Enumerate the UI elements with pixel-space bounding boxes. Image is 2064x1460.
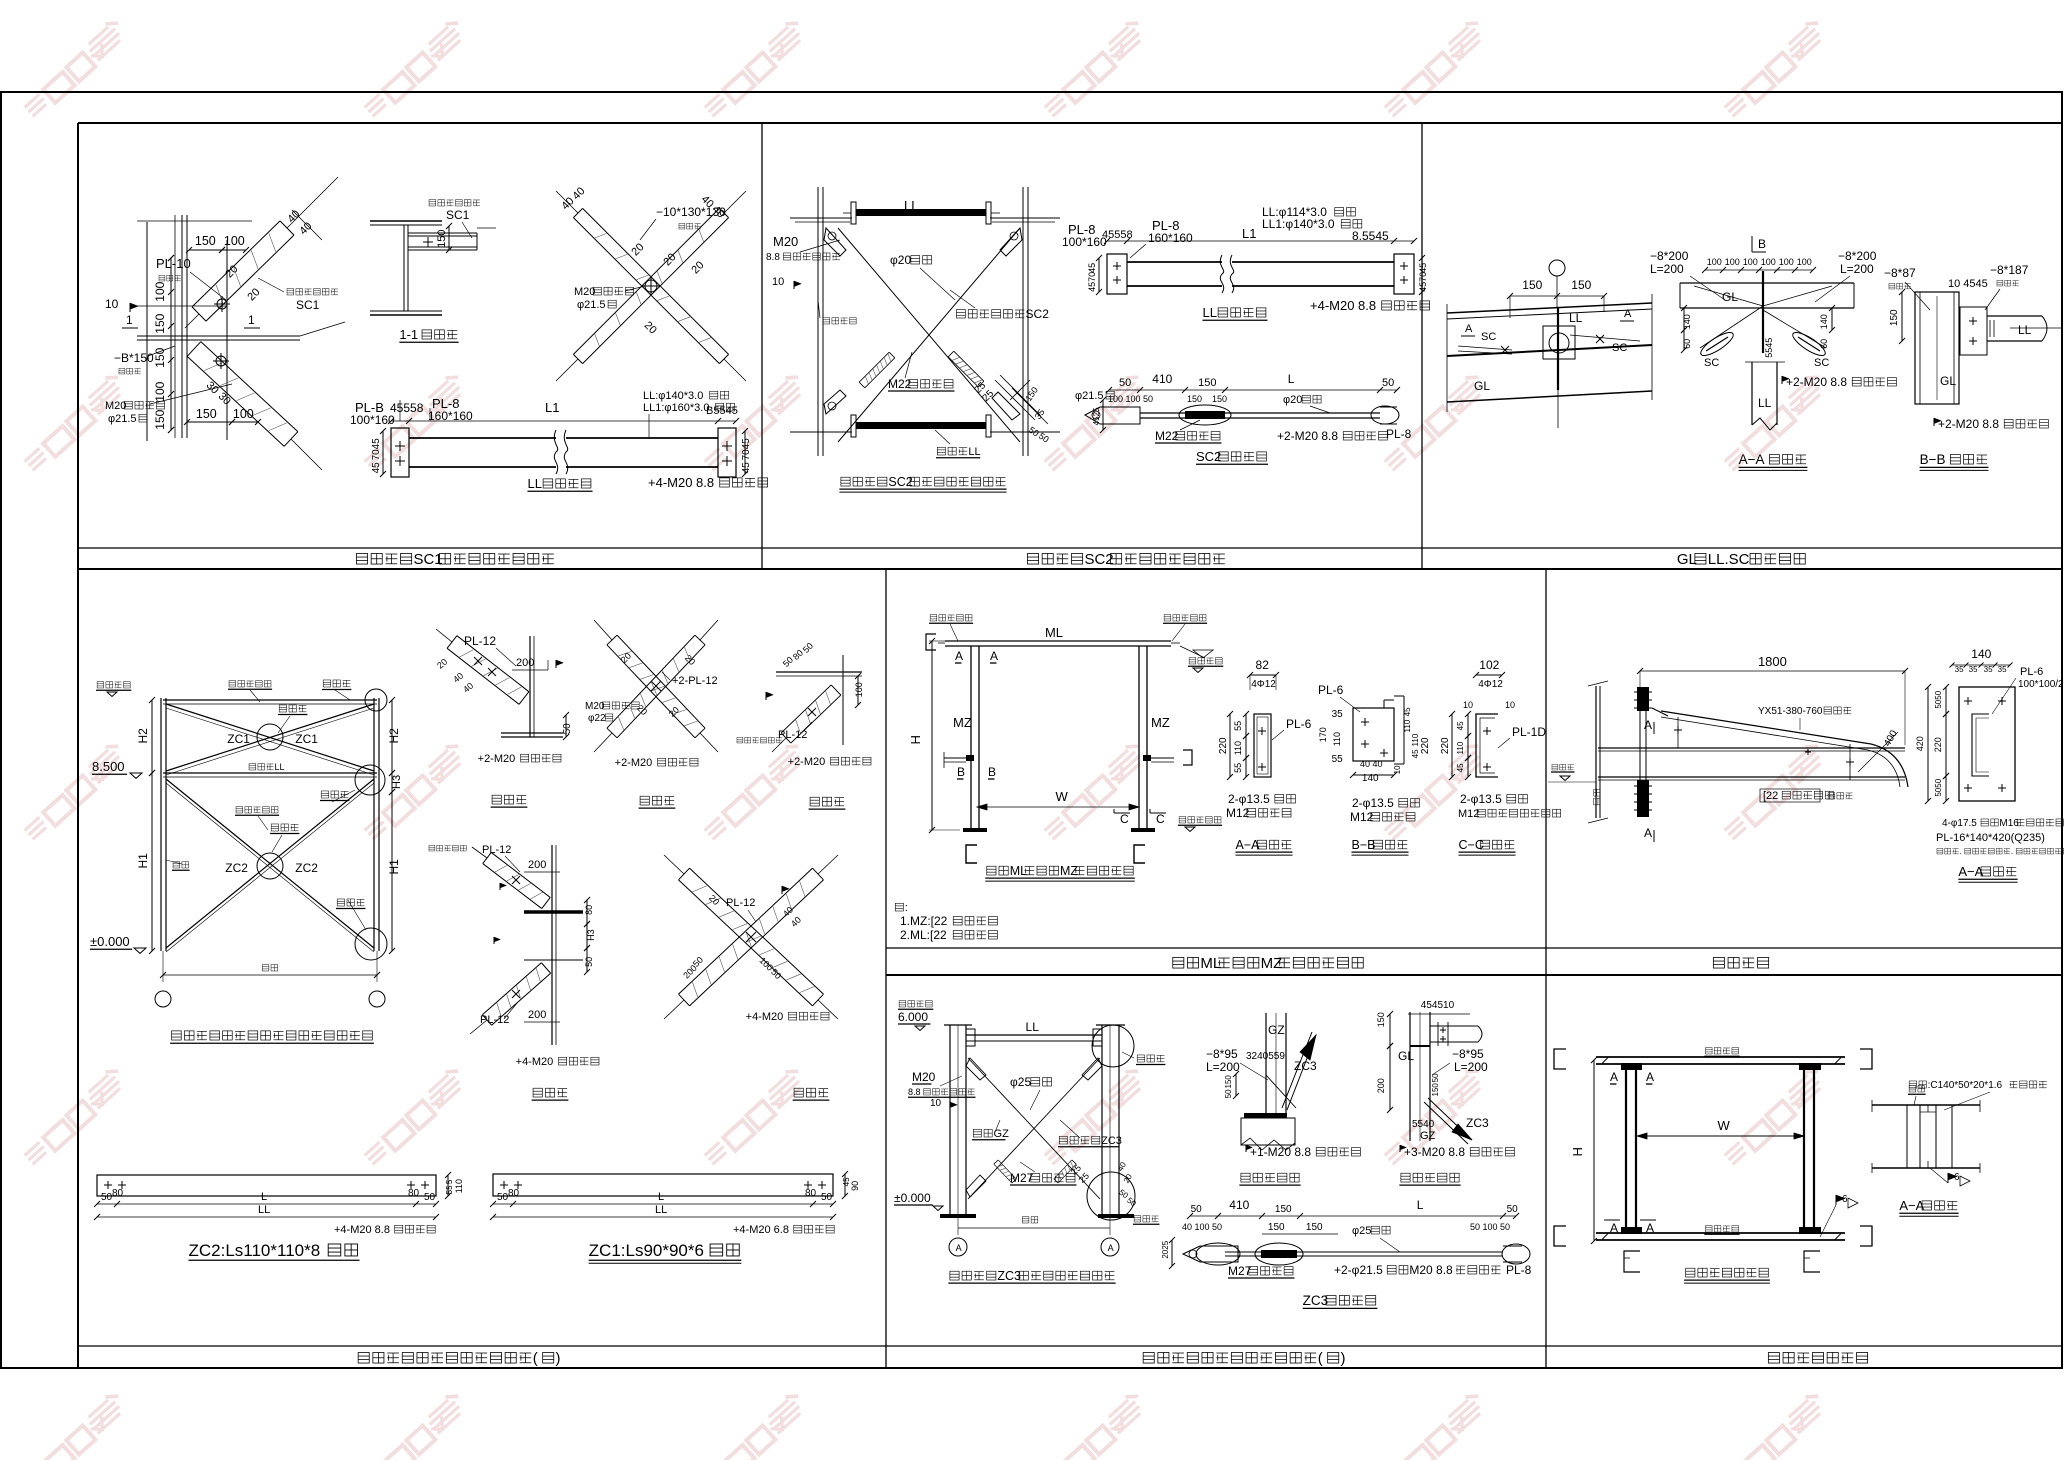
LL member side dims bbox=[382, 431, 384, 474]
ZC3 frame title bbox=[950, 1271, 959, 1280]
svg-text:+4-M20 8.8: +4-M20 8.8 bbox=[1310, 298, 1376, 313]
svg-text:+2-M20: +2-M20 bbox=[478, 753, 516, 765]
middle label bar lines bbox=[886, 947, 2062, 949]
svg-text:220: 220 bbox=[1218, 737, 1229, 754]
window AA inner channels bbox=[1906, 1105, 1908, 1168]
svg-text:100 100 50: 100 100 50 bbox=[1108, 394, 1153, 404]
SC1 connection detail column bbox=[181, 215, 183, 438]
panel title bracing 1 bbox=[358, 1352, 369, 1363]
svg-text:L=200: L=200 bbox=[1650, 262, 1684, 276]
node 1 diagonal rod bbox=[1282, 1032, 1312, 1108]
canopy wall column bbox=[1595, 686, 1597, 818]
svg-text:45558: 45558 bbox=[1102, 229, 1133, 241]
svg-text:100: 100 bbox=[1725, 257, 1740, 267]
SC2 LL member detail beam bbox=[1127, 261, 1394, 263]
ZC3 grid circles bbox=[949, 1238, 967, 1256]
detail 5 beam bbox=[776, 671, 862, 673]
GL plan upper chord line bbox=[1447, 303, 1652, 313]
ZC3 corner hooks bbox=[966, 1058, 986, 1080]
svg-text:150: 150 bbox=[153, 313, 167, 333]
svg-text:L: L bbox=[658, 1191, 664, 1203]
svg-text:100: 100 bbox=[224, 234, 245, 248]
canopy dim 1800 bbox=[1640, 670, 1905, 672]
svg-text:110: 110 bbox=[1332, 732, 1342, 746]
svg-text:200: 200 bbox=[528, 1009, 546, 1021]
svg-text:A−A: A−A bbox=[1236, 838, 1261, 852]
svg-text:(: ( bbox=[1318, 1350, 1323, 1367]
canopy sheet left tip bbox=[1652, 708, 1668, 716]
svg-text:10: 10 bbox=[1463, 700, 1473, 710]
svg-text:H1: H1 bbox=[387, 859, 401, 875]
bottom label bar line bbox=[78, 1345, 2062, 1347]
svg-text:80: 80 bbox=[408, 1188, 420, 1199]
SC2 LL member break bbox=[1222, 258, 1232, 290]
svg-text:150: 150 bbox=[1522, 278, 1542, 292]
svg-text:B−B: B−B bbox=[1920, 452, 1946, 467]
svg-text:PL-8: PL-8 bbox=[1506, 1263, 1532, 1277]
svg-text:): ) bbox=[556, 1350, 561, 1367]
detail 2 vertical plate bbox=[551, 845, 553, 1045]
ZC3 member right end bbox=[1502, 1244, 1530, 1264]
svg-text:6: 6 bbox=[1842, 1194, 1848, 1205]
detail 1 brace band bbox=[447, 648, 519, 704]
B-B channel marks top right bbox=[1384, 699, 1394, 701]
ZC3 rotated dims bottom right bbox=[1069, 1163, 1083, 1177]
svg-text:100*160: 100*160 bbox=[1062, 235, 1107, 249]
svg-text:φ25: φ25 bbox=[1352, 1225, 1371, 1237]
svg-text:L: L bbox=[1288, 372, 1295, 386]
svg-text:MZ: MZ bbox=[1151, 715, 1170, 730]
divider bottom middle/right bbox=[1545, 569, 1547, 1368]
svg-text:L=200: L=200 bbox=[1454, 1060, 1488, 1074]
node 1 base plate bbox=[1244, 1113, 1287, 1118]
svg-text:+3-M20 8.8: +3-M20 8.8 bbox=[1404, 1145, 1465, 1159]
canopy label 400 bbox=[1882, 728, 1900, 748]
B-B section connection plate bbox=[1960, 307, 1987, 355]
svg-text:L: L bbox=[261, 1191, 267, 1203]
svg-text:): ) bbox=[1341, 1350, 1346, 1367]
detail 2 upper brace bbox=[483, 864, 542, 909]
svg-text:55: 55 bbox=[1233, 763, 1243, 773]
svg-text:GL: GL bbox=[1474, 379, 1490, 393]
svg-text:200: 200 bbox=[1376, 1078, 1386, 1093]
panel title bracing 2 bbox=[1143, 1352, 1154, 1363]
window dim ticks on beams bbox=[1602, 1058, 1608, 1064]
bracing frame top chord bbox=[163, 699, 377, 701]
detail 4 title bbox=[640, 796, 649, 805]
svg-text:GL: GL bbox=[1677, 551, 1697, 568]
svg-text:50: 50 bbox=[497, 1192, 509, 1203]
svg-text:W: W bbox=[1055, 789, 1068, 804]
svg-text:SC1: SC1 bbox=[446, 208, 470, 222]
bracing upper X ZC1 bbox=[166, 704, 374, 771]
LL member break symbol bbox=[556, 434, 566, 471]
SC1 detail mid beam bbox=[137, 335, 300, 337]
svg-text:M20: M20 bbox=[773, 234, 798, 249]
svg-text:35: 35 bbox=[1969, 665, 1978, 674]
svg-text:55: 55 bbox=[1233, 721, 1243, 731]
svg-text:50: 50 bbox=[101, 1192, 113, 1203]
detail 1 vertical plate bbox=[529, 636, 531, 737]
svg-text:ZC1: ZC1 bbox=[295, 732, 318, 746]
svg-text:LL: LL bbox=[1203, 305, 1217, 320]
X-cross rotated dims bbox=[559, 195, 576, 212]
svg-text:2-φ13.5: 2-φ13.5 bbox=[1460, 792, 1502, 806]
svg-text:150: 150 bbox=[436, 230, 448, 248]
A-A section SC turnbuckle right bbox=[1790, 329, 1828, 360]
detail 4 X cross bbox=[607, 645, 695, 738]
SC1 X-cross detail brace 1 bbox=[573, 218, 719, 364]
SC2 corner gussets bbox=[824, 228, 846, 256]
canopy roof sheet bbox=[1661, 711, 1871, 744]
svg-text:PL-12: PL-12 bbox=[464, 634, 496, 648]
node 2 top dims bbox=[1408, 1013, 1470, 1015]
svg-text:SC1: SC1 bbox=[296, 298, 320, 312]
svg-text:φ21.5: φ21.5 bbox=[577, 299, 606, 311]
SC2 rod turnbuckle bbox=[1179, 405, 1231, 425]
svg-text:110: 110 bbox=[1233, 741, 1243, 755]
SC1 bottom dims bbox=[187, 421, 232, 423]
svg-text:M27: M27 bbox=[1228, 1264, 1252, 1278]
svg-text:200: 200 bbox=[528, 859, 546, 871]
svg-text:A: A bbox=[955, 649, 963, 663]
svg-text:LL: LL bbox=[655, 1204, 667, 1216]
ZC3 right column bbox=[1101, 1025, 1103, 1216]
ZC1 bar dims bbox=[493, 1203, 833, 1205]
A-A plate dims bbox=[1245, 714, 1247, 736]
1-1 section label SC1 bbox=[429, 200, 436, 206]
detail 3 title bbox=[794, 1088, 803, 1097]
window AA flag 6 bbox=[1947, 1173, 1949, 1183]
portal left end c-channel mark bbox=[926, 634, 936, 650]
svg-text:1.MZ:[22: 1.MZ:[22 bbox=[900, 914, 948, 928]
SC2 LL member top dim bbox=[1107, 240, 1414, 242]
svg-text:4Φ12: 4Φ12 bbox=[1478, 679, 1503, 690]
svg-text:A: A bbox=[1465, 323, 1473, 335]
label door level bbox=[1189, 658, 1196, 664]
svg-text:ML: ML bbox=[1045, 625, 1063, 640]
window title bbox=[1686, 1268, 1695, 1277]
svg-text:3240559: 3240559 bbox=[1246, 1051, 1285, 1062]
svg-text:L1: L1 bbox=[1242, 226, 1256, 241]
svg-text:SC2: SC2 bbox=[1084, 551, 1113, 568]
LL member top dim line bbox=[391, 420, 736, 422]
node 2 LL stub bbox=[1430, 1025, 1478, 1027]
svg-text:+4-M20 8.8: +4-M20 8.8 bbox=[648, 475, 714, 490]
svg-text:10: 10 bbox=[930, 1098, 942, 1109]
svg-text:M22: M22 bbox=[888, 377, 912, 391]
svg-text:150: 150 bbox=[1889, 309, 1900, 326]
ZC3 member dims bbox=[1190, 1215, 1516, 1217]
svg-text:M20: M20 bbox=[912, 1070, 936, 1084]
bracing frame right column bbox=[373, 698, 375, 951]
bracing lower X ZC2 bbox=[166, 779, 374, 948]
svg-text:H2: H2 bbox=[387, 728, 401, 744]
svg-text:5540: 5540 bbox=[1412, 1119, 1435, 1130]
GL plan middle tie line bbox=[1447, 345, 1652, 356]
LL member end plates bbox=[391, 428, 409, 477]
svg-text:−8*95: −8*95 bbox=[1206, 1047, 1238, 1061]
svg-text:+4-M20: +4-M20 bbox=[746, 1011, 784, 1023]
watermark grid bbox=[19, 17, 129, 120]
C-C dims bbox=[1467, 714, 1469, 736]
node 2 detail bbox=[1409, 1012, 1411, 1141]
window weld flag 6 bbox=[1835, 1195, 1837, 1205]
SC1 upper diagonal brace bbox=[206, 235, 294, 321]
svg-text:1: 1 bbox=[248, 313, 255, 327]
svg-text:A: A bbox=[1610, 1221, 1618, 1235]
detail 3 X cross bbox=[679, 880, 813, 1006]
svg-text:LL: LL bbox=[258, 1204, 270, 1216]
svg-text:50: 50 bbox=[1507, 1204, 1519, 1215]
svg-text:45: 45 bbox=[1456, 763, 1465, 772]
panel title SC1 bbox=[356, 553, 367, 564]
svg-text:50: 50 bbox=[1224, 1089, 1233, 1098]
panel title SC2 bbox=[1027, 553, 1038, 564]
svg-text:+2-M20 8.8: +2-M20 8.8 bbox=[1277, 429, 1338, 443]
svg-text:GL: GL bbox=[1940, 374, 1956, 388]
svg-text:LL1:φ160*3.0: LL1:φ160*3.0 bbox=[643, 402, 709, 414]
bracing bottom dim bbox=[163, 974, 377, 976]
canopy left level mark bbox=[1552, 764, 1558, 770]
svg-text:MZ: MZ bbox=[953, 715, 972, 730]
canopy verticals on beam bbox=[1677, 717, 1679, 748]
svg-text:LL: LL bbox=[1569, 311, 1583, 325]
canopy AA section plate bbox=[1959, 687, 2015, 801]
grid circles bbox=[155, 991, 171, 1007]
svg-text:45: 45 bbox=[1418, 282, 1428, 292]
svg-text:45: 45 bbox=[371, 462, 382, 474]
top row label bar top line bbox=[78, 547, 2062, 549]
svg-text:H1: H1 bbox=[136, 853, 150, 869]
GL plan dim 150 150 bbox=[1510, 295, 1604, 297]
label roof brace SC2 bbox=[956, 310, 965, 318]
svg-text:PL-6: PL-6 bbox=[1286, 717, 1312, 731]
svg-text:M22: M22 bbox=[1155, 429, 1179, 443]
A-A section top dim 100x6 bbox=[1705, 269, 1813, 271]
LL member detail beam bbox=[409, 437, 718, 439]
SC1 lower brace bolt bbox=[216, 356, 226, 366]
portal ML beam bbox=[945, 640, 1171, 642]
svg-text:A: A bbox=[1610, 1070, 1618, 1084]
ZC3 frame bottom dim bbox=[958, 1227, 1110, 1229]
svg-text:+2-PL-12: +2-PL-12 bbox=[672, 675, 718, 687]
svg-text:100*100/2: 100*100/2 bbox=[2018, 679, 2064, 690]
svg-text:102: 102 bbox=[1479, 658, 1499, 672]
svg-text:±0.000: ±0.000 bbox=[894, 1191, 931, 1205]
svg-text:100: 100 bbox=[153, 381, 167, 401]
canopy AA side dims bbox=[1945, 687, 1947, 714]
svg-text:150: 150 bbox=[196, 407, 217, 421]
label tie LL bbox=[937, 447, 945, 455]
svg-text:C: C bbox=[1120, 812, 1129, 826]
window left mullion bbox=[1625, 1064, 1627, 1233]
svg-text:1: 1 bbox=[126, 313, 133, 327]
svg-text:A: A bbox=[1646, 1221, 1654, 1235]
row divider line bbox=[78, 568, 2062, 570]
svg-text:55: 55 bbox=[445, 1185, 454, 1194]
window right mullion bbox=[1803, 1064, 1805, 1233]
svg-text:PL-12: PL-12 bbox=[480, 1014, 509, 1026]
portal left column MZ bbox=[970, 646, 972, 830]
svg-text:±0.000: ±0.000 bbox=[90, 934, 130, 949]
svg-text:M12: M12 bbox=[1226, 806, 1250, 820]
svg-text:PL-12: PL-12 bbox=[482, 844, 511, 856]
svg-text:LL: LL bbox=[1026, 1020, 1040, 1034]
svg-text:100: 100 bbox=[1797, 257, 1812, 267]
svg-text:H3: H3 bbox=[391, 775, 403, 789]
SC2 top beam stubs bbox=[790, 217, 852, 219]
portal title bbox=[987, 866, 996, 875]
label beam web bbox=[823, 318, 830, 324]
GL plan grid circle bbox=[1549, 260, 1565, 276]
svg-text:LL: LL bbox=[528, 476, 542, 491]
canopy AA channel inside bbox=[1972, 714, 1989, 776]
svg-text:1800: 1800 bbox=[1758, 654, 1787, 669]
svg-text:80: 80 bbox=[805, 1188, 817, 1199]
divider SC2/GL bbox=[1421, 123, 1423, 569]
svg-text:90: 90 bbox=[850, 1181, 860, 1191]
svg-text:150: 150 bbox=[1571, 278, 1591, 292]
svg-text:100: 100 bbox=[1743, 257, 1758, 267]
svg-text:ZC1: ZC1 bbox=[227, 732, 250, 746]
svg-text:SC: SC bbox=[1814, 357, 1829, 369]
window H dim bbox=[1593, 1060, 1595, 1241]
ZC3 X diagonals bbox=[968, 1058, 1100, 1199]
svg-text:W: W bbox=[1717, 1118, 1730, 1133]
svg-text:150: 150 bbox=[1306, 1222, 1323, 1233]
svg-text:170: 170 bbox=[1318, 727, 1328, 742]
svg-text:140: 140 bbox=[1971, 647, 1991, 661]
bracing detail circles right bbox=[365, 689, 387, 711]
svg-text:−8*87: −8*87 bbox=[1884, 266, 1916, 280]
svg-text:PL-6: PL-6 bbox=[1318, 683, 1344, 697]
1-1 section channel bbox=[408, 232, 477, 234]
svg-text:5545: 5545 bbox=[1764, 338, 1774, 358]
svg-text:35: 35 bbox=[1998, 665, 2007, 674]
svg-text:40 100 50: 40 100 50 bbox=[1182, 1222, 1222, 1232]
svg-text:100*160: 100*160 bbox=[350, 413, 395, 427]
window AA labels bbox=[1909, 1086, 1916, 1092]
svg-text:M27: M27 bbox=[1010, 1171, 1034, 1185]
leader labels bbox=[229, 681, 236, 687]
svg-text:410: 410 bbox=[1152, 372, 1172, 386]
1-1 section I-beam bbox=[370, 220, 442, 222]
W dim bbox=[977, 806, 1139, 808]
label SC1 roof brace bbox=[287, 289, 294, 295]
window W dim bbox=[1637, 1135, 1804, 1137]
svg-text:ML: ML bbox=[1010, 864, 1027, 878]
svg-text:SC1: SC1 bbox=[413, 551, 442, 568]
SC1 detail top dim 150/100 bbox=[189, 249, 222, 251]
svg-text:−8*200: −8*200 bbox=[1838, 249, 1877, 263]
svg-text:140: 140 bbox=[1682, 314, 1692, 329]
portal bottom brackets bbox=[966, 845, 977, 863]
panel title ML-MZ bbox=[1173, 957, 1184, 968]
svg-text:A: A bbox=[1646, 1070, 1654, 1084]
GL plan SC diagonal stubs bbox=[1458, 346, 1512, 350]
ZC1 bar detail bbox=[493, 1174, 833, 1196]
svg-text:110: 110 bbox=[454, 1179, 464, 1193]
window labels bbox=[1705, 1048, 1712, 1054]
svg-text:PL-1D: PL-1D bbox=[1512, 725, 1546, 739]
svg-text:+4-M20: +4-M20 bbox=[516, 1056, 554, 1068]
svg-text:45: 45 bbox=[741, 438, 752, 450]
svg-text:B: B bbox=[1758, 237, 1766, 251]
svg-text:SC: SC bbox=[1704, 357, 1719, 369]
svg-text:60: 60 bbox=[1819, 339, 1829, 349]
svg-text:M12: M12 bbox=[1458, 808, 1479, 820]
svg-text:(: ( bbox=[533, 1350, 538, 1367]
svg-text:70: 70 bbox=[1087, 272, 1097, 282]
svg-text:SC2: SC2 bbox=[1196, 449, 1221, 464]
svg-text:ZC2: ZC2 bbox=[225, 861, 248, 875]
node 2 diagonal rod bbox=[1428, 1098, 1472, 1140]
mid connection right bbox=[1143, 755, 1151, 761]
A-A section LL tube below bbox=[1751, 362, 1753, 425]
svg-text:ZC3: ZC3 bbox=[997, 1269, 1021, 1283]
svg-text:5050: 5050 bbox=[1934, 778, 1943, 796]
SC2 rod left plate bbox=[1085, 407, 1140, 424]
SC1 detail left dim chain bbox=[170, 258, 172, 430]
svg-text:M20 8.8: M20 8.8 bbox=[1409, 1263, 1453, 1277]
svg-text:ZC3: ZC3 bbox=[1294, 1059, 1317, 1073]
svg-text:LL: LL bbox=[968, 446, 980, 458]
svg-text:PL-6: PL-6 bbox=[2020, 666, 2043, 678]
svg-text:A: A bbox=[1644, 718, 1652, 732]
svg-text:A−A: A−A bbox=[1899, 1198, 1924, 1213]
B-B section I-beam bbox=[1915, 292, 1959, 404]
svg-text:100: 100 bbox=[1761, 257, 1776, 267]
svg-text:B5545: B5545 bbox=[706, 405, 738, 417]
svg-text:A: A bbox=[1644, 826, 1652, 840]
labels connect to column bbox=[930, 615, 937, 621]
svg-text:M12: M12 bbox=[1350, 810, 1374, 824]
detail 2 title bbox=[533, 1088, 542, 1097]
svg-text:PL-12: PL-12 bbox=[726, 897, 755, 909]
svg-text:50: 50 bbox=[424, 1192, 436, 1203]
svg-text:B−B: B−B bbox=[1352, 838, 1376, 852]
portal right column MZ bbox=[1138, 646, 1140, 830]
svg-text:−8*187: −8*187 bbox=[1990, 263, 2029, 277]
svg-text:150: 150 bbox=[1187, 394, 1202, 404]
window bottom c channels bbox=[1624, 1251, 1640, 1272]
svg-text:10: 10 bbox=[105, 297, 119, 311]
canopy AA bolts bbox=[1964, 700, 1972, 702]
svg-text:70: 70 bbox=[371, 449, 382, 461]
svg-text:10 4545: 10 4545 bbox=[1948, 278, 1988, 290]
SC2 rod detail bbox=[1140, 412, 1380, 414]
svg-text:40 40: 40 40 bbox=[1360, 759, 1383, 769]
svg-text:80: 80 bbox=[584, 905, 594, 915]
svg-text:50: 50 bbox=[821, 1192, 833, 1203]
svg-text:A−A: A−A bbox=[1958, 864, 1983, 879]
svg-text:150: 150 bbox=[1268, 1222, 1285, 1233]
label ground beam level bbox=[1179, 817, 1186, 823]
svg-text:ZC2:Ls110*110*8: ZC2:Ls110*110*8 bbox=[188, 1241, 320, 1260]
svg-text:454510: 454510 bbox=[1421, 1000, 1455, 1011]
svg-text:φ25: φ25 bbox=[1010, 1075, 1031, 1089]
svg-text:50: 50 bbox=[1382, 377, 1394, 389]
SC2 X diagonal 2 bbox=[838, 228, 1020, 442]
inner frame left line bbox=[77, 123, 79, 1368]
canopy label column bbox=[1594, 789, 1600, 804]
SC2 top LL bar bbox=[856, 209, 986, 216]
canopy AA top dims bbox=[1952, 664, 2010, 666]
svg-text:25: 25 bbox=[1092, 407, 1101, 416]
svg-text:110: 110 bbox=[1403, 719, 1412, 732]
svg-text:M20: M20 bbox=[105, 400, 126, 412]
